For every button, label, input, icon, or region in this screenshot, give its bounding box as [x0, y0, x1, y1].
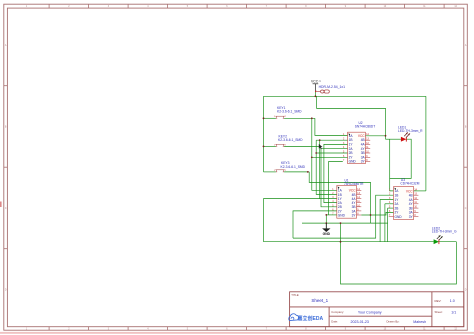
svg-text:TITLE:: TITLE:	[291, 293, 299, 297]
U2 pin numbers	[343, 134, 369, 162]
wire U2 1Y to U1 2A	[324, 144, 348, 202]
wire LED1 anode	[386, 138, 401, 140]
svg-text:VCC: VCC	[358, 134, 365, 138]
wire U2 GND down	[329, 162, 343, 215]
svg-text:LED-TH-3mm_R: LED-TH-3mm_R	[398, 129, 423, 133]
wire GND down loop to LED2 bottom	[341, 223, 457, 284]
junction node 2B	[315, 152, 317, 154]
wire VCC rail	[264, 95, 426, 97]
junction VCC net at J1	[315, 95, 317, 97]
svg-text:SN74HC86DT: SN74HC86DT	[355, 125, 375, 129]
wire GND symbol drop	[325, 215, 327, 229]
U2 pin names	[349, 134, 357, 164]
wire GND rail	[302, 222, 388, 224]
wire U2 2A to U1 2B	[321, 149, 348, 207]
wire U1 GND pin	[326, 214, 337, 216]
wire KEY3 jog around U1	[309, 172, 370, 223]
svg-text:CD74HC32M: CD74HC32M	[400, 181, 419, 185]
wire loop to U3 1B	[293, 195, 394, 238]
wire U2 VCC pin	[365, 135, 385, 137]
wire VCC flag stub	[314, 91, 316, 96]
wire KEY3 row	[264, 171, 276, 173]
logo jlc eda	[289, 314, 324, 322]
svg-text:GND: GND	[395, 215, 403, 219]
wire U1 1Y long loop	[264, 199, 337, 242]
wire U2 2B row	[316, 152, 347, 154]
wire U3 2B drop to anode rail	[387, 208, 389, 242]
junction U2 VCC pin	[385, 135, 387, 137]
svg-text:REV:: REV:	[435, 299, 442, 303]
wire LED1 cathode loop	[390, 139, 412, 191]
svg-text:Drawn By:: Drawn By:	[387, 320, 400, 324]
junction KEY3 pin2	[307, 171, 309, 173]
junction node 2Y	[311, 156, 313, 158]
junction node KEY1/U1 1A	[311, 117, 313, 119]
junction KEY1 pin1 on VCC bus	[263, 117, 265, 119]
junction U1 3Y / KEY3 drop	[370, 214, 372, 216]
wire right rail to U3 VCC	[425, 96, 427, 191]
VCC net flag	[311, 80, 322, 92]
pushbutton KEY3	[274, 161, 306, 172]
svg-text:GND: GND	[323, 232, 331, 236]
junction anode rail / drop	[340, 241, 342, 243]
svg-text:1.0: 1.0	[450, 299, 455, 303]
wire KEY1 branch to U1 1A	[312, 118, 337, 190]
connector J1 HDR-M-2.54_1x1	[315, 85, 345, 93]
left page edge mark	[0, 202, 2, 208]
svg-text:K2-3.6-6.1_SMD: K2-3.6-6.1_SMD	[281, 165, 306, 169]
wire U2 1B row	[316, 139, 347, 141]
svg-text:2023-01-23: 2023-01-23	[351, 320, 369, 324]
ground symbol	[322, 223, 330, 236]
svg-text:Your Company: Your Company	[358, 311, 382, 315]
op IC U2 SN74HC86DT	[343, 121, 375, 164]
junction U1 GND pin	[325, 214, 327, 216]
svg-text:LED-TH-3mm_G: LED-TH-3mm_G	[432, 230, 457, 234]
cursor arrow	[319, 144, 323, 149]
bottom page edge strip	[0, 332, 474, 334]
wire U2 2Y row	[312, 156, 348, 158]
U2 pin1 marker	[348, 133, 350, 136]
junction GND rail / LED2 drop	[340, 222, 342, 224]
svg-text:Date:: Date:	[331, 320, 338, 324]
wire U1 2Y loop	[293, 211, 337, 238]
pushbutton KEY2	[274, 135, 303, 147]
wire KEY1 row	[264, 117, 276, 119]
junction KEY2 pin1 on VCC bus	[263, 146, 265, 148]
svg-text:GND: GND	[349, 160, 357, 164]
svg-text:嘉立创EDA: 嘉立创EDA	[297, 315, 324, 322]
svg-text:Company:: Company:	[331, 310, 344, 314]
or IC U3 CD74HC32M	[389, 178, 420, 220]
wire 1B branch down to U1 1Y	[319, 140, 321, 198]
wire U3 2A feed	[385, 203, 394, 205]
svg-text:1/1: 1/1	[451, 311, 456, 315]
wire U1 3Y row to U3 2Y	[361, 212, 393, 215]
wire KEY1 to U2 1A	[315, 118, 348, 135]
wire U3 VCC pin	[414, 190, 426, 192]
U2 pin stubs right (unconnected)	[365, 140, 370, 161]
wire LED2 anode long rail	[264, 241, 434, 243]
svg-text:Mahesh: Mahesh	[413, 320, 426, 324]
svg-text:Sheet_1: Sheet_1	[311, 298, 328, 303]
and IC U1 74HC08M/TR	[332, 179, 364, 219]
wire VCC left bus down to keys	[263, 96, 265, 172]
svg-text:HDR-M-2.54_1x1: HDR-M-2.54_1x1	[319, 85, 345, 89]
svg-text:Sheet:: Sheet:	[435, 310, 443, 314]
wire 1B bus down to U1 1B	[316, 140, 337, 194]
junction GND rail left	[325, 222, 327, 224]
pushbutton KEY1	[274, 106, 302, 119]
svg-text:K2-3.6-6.1_SMD: K2-3.6-6.1_SMD	[278, 138, 303, 142]
junction node 1B	[319, 139, 321, 141]
svg-text:VCC: VCC	[406, 189, 413, 193]
wire branch up to U3 1Y	[380, 200, 393, 242]
wire LED1 loop left side	[389, 139, 391, 178]
svg-text:GND: GND	[338, 213, 346, 217]
svg-text:VCC: VCC	[349, 189, 356, 193]
led LED2 green	[432, 226, 457, 244]
wire U3 2A drop to anode rail	[384, 204, 386, 242]
wire U3 2B feed	[388, 207, 394, 209]
wire LED2 cathode	[438, 241, 457, 243]
wire VCC jog to U2	[317, 96, 386, 139]
wire KEY2 row	[264, 145, 276, 147]
svg-text:K2-3.6-6.1_SMD: K2-3.6-6.1_SMD	[277, 109, 302, 113]
led LED1 red	[398, 126, 423, 142]
